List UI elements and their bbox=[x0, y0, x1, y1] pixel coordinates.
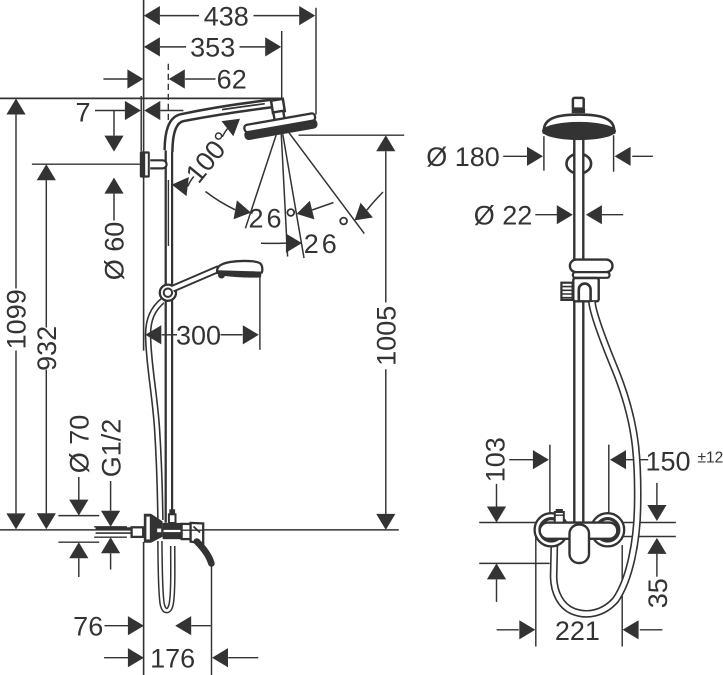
svg-text:7: 7 bbox=[75, 98, 90, 128]
valve centerline left figure bbox=[0, 529, 399, 531]
head face (dark ellipse) bbox=[542, 122, 616, 140]
hand shower holder ring bbox=[160, 285, 176, 301]
extension line 438 right bbox=[315, 8, 317, 115]
hose right figure bbox=[554, 302, 638, 614]
extension line 353 bbox=[281, 31, 283, 98]
svg-text:62: 62 bbox=[217, 65, 247, 95]
riser pipe bbox=[164, 140, 174, 523]
svg-text:35: 35 bbox=[643, 578, 673, 608]
dim line G1/2 bbox=[110, 481, 112, 570]
dim line 1005 bbox=[385, 151, 387, 514]
line B outlet level bbox=[622, 536, 676, 538]
100 deg arc stubs bbox=[222, 129, 227, 137]
dim line 7 bbox=[95, 110, 183, 112]
wall fitting square bbox=[132, 527, 144, 537]
26a bbox=[234, 200, 253, 222]
extension line 7-left bbox=[140, 96, 142, 151]
ball joint ring bbox=[567, 154, 592, 174]
dia22 bbox=[557, 205, 573, 224]
handle lever bbox=[197, 542, 212, 564]
valve handle bbox=[570, 525, 590, 564]
check valve knob bbox=[561, 283, 572, 300]
degree circle second 26 bbox=[340, 218, 347, 225]
line C lower boundary bbox=[479, 562, 550, 564]
hand shower handle bbox=[173, 269, 220, 289]
wall line bbox=[143, 0, 145, 675]
62 bbox=[127, 69, 143, 88]
dim line 103 bbox=[496, 484, 498, 602]
valve escutcheon cone bbox=[144, 514, 163, 543]
elbow and shower arm bbox=[165, 100, 272, 152]
overhead shower head (side view, tilted) bbox=[243, 113, 319, 141]
dim line 300 bbox=[162, 334, 243, 336]
svg-text:Ø 70: Ø 70 bbox=[65, 415, 95, 474]
150 extension lines bbox=[550, 445, 609, 521]
dim line 176 bbox=[104, 657, 258, 659]
pipe over ring bbox=[573, 149, 584, 181]
diverter knob bbox=[169, 514, 176, 523]
26a leaders bbox=[206, 192, 236, 210]
spray fan lines bbox=[245, 122, 364, 259]
221 bbox=[519, 620, 535, 639]
176 bbox=[128, 648, 144, 667]
dim line 221 bbox=[497, 629, 663, 631]
svg-text:932: 932 bbox=[32, 326, 62, 371]
extension line 300 right bbox=[259, 272, 261, 350]
tick 1005 top bbox=[299, 134, 405, 136]
pipe bbox=[573, 139, 584, 524]
connector square on top of head bbox=[573, 98, 584, 109]
svg-text:150: 150 bbox=[645, 447, 690, 477]
svg-text:76: 76 bbox=[73, 611, 103, 641]
svg-text:438: 438 bbox=[204, 1, 249, 31]
dim line 62 bbox=[103, 78, 215, 80]
dim line 1099 bbox=[15, 115, 17, 514]
dim line 932 bbox=[45, 180, 47, 513]
wall bracket bbox=[140, 151, 150, 177]
svg-text:103: 103 bbox=[480, 437, 510, 482]
valve escutcheon right outer bbox=[591, 513, 624, 546]
supply nipple into wall bbox=[96, 527, 132, 530]
dia60 bbox=[104, 136, 123, 152]
valve body bbox=[540, 523, 618, 539]
103 bbox=[487, 507, 506, 523]
1005 bbox=[376, 135, 395, 151]
26b leaders bbox=[261, 242, 286, 244]
head cap (white dome) bbox=[544, 115, 614, 133]
svg-text:176: 176 bbox=[150, 643, 195, 673]
7 bbox=[125, 101, 141, 120]
svg-text:100°: 100° bbox=[180, 126, 238, 188]
dim line 353 bbox=[160, 46, 265, 48]
valve knob bbox=[555, 512, 564, 523]
svg-text:1099: 1099 bbox=[2, 289, 32, 349]
76 bbox=[128, 616, 144, 635]
head connector square bbox=[271, 99, 285, 113]
valve escutcheon left outer bbox=[535, 513, 568, 546]
tick 932 top bbox=[32, 163, 140, 165]
dim line dia180 bbox=[503, 155, 653, 157]
svg-text:Ø 60: Ø 60 bbox=[100, 222, 130, 281]
150 bbox=[533, 450, 549, 469]
centerline over valve mid-section bbox=[182, 529, 203, 531]
svg-text:Ø 180: Ø 180 bbox=[426, 142, 500, 172]
dim line 150 bbox=[509, 459, 648, 461]
hose upper (holder to valve) bbox=[148, 300, 164, 521]
handle base bbox=[191, 523, 204, 543]
dia180 bbox=[527, 147, 543, 166]
1099 bbox=[6, 99, 25, 115]
dim line 35 bbox=[656, 483, 658, 577]
head connector neck bbox=[273, 111, 284, 120]
degree circle first 26 bbox=[287, 209, 294, 216]
svg-text:300: 300 bbox=[176, 321, 221, 351]
353 bbox=[144, 37, 160, 56]
hose loop under valve bbox=[160, 541, 173, 611]
dim line dia60 bbox=[113, 111, 115, 221]
line A valve inlet centerline bbox=[479, 522, 676, 524]
300 bbox=[145, 325, 161, 344]
438 bbox=[144, 6, 160, 25]
221 extension lines bbox=[536, 522, 622, 647]
ticks dia70 bbox=[58, 516, 99, 543]
svg-text:26: 26 bbox=[304, 229, 340, 259]
ticks G1/2 bbox=[94, 527, 127, 537]
slider holder bbox=[570, 260, 613, 273]
svg-text:353: 353 bbox=[190, 33, 235, 63]
valve body bbox=[163, 523, 182, 539]
dim line 76 bbox=[105, 625, 211, 627]
100deg bbox=[221, 111, 245, 136]
hose outlet block bbox=[573, 278, 598, 301]
G1/2 bbox=[101, 511, 120, 527]
dashed riser centerline bbox=[167, 64, 169, 124]
svg-text:G1/2: G1/2 bbox=[96, 419, 126, 478]
35 bbox=[647, 505, 666, 521]
svg-text:±12: ±12 bbox=[698, 450, 723, 467]
dim line 300 redrawn on top bbox=[162, 334, 243, 336]
dim line dia22 bbox=[535, 214, 623, 216]
reference line 1099 top / arm top bbox=[0, 97, 282, 99]
dim line 438 bbox=[160, 15, 299, 17]
dia70 bbox=[69, 500, 88, 516]
26b bbox=[286, 234, 302, 253]
valve mid section bbox=[182, 524, 191, 539]
svg-text:26: 26 bbox=[248, 204, 284, 234]
dim line dia70 bbox=[78, 477, 80, 577]
932 bbox=[37, 164, 56, 180]
extension line 176 right bbox=[211, 566, 213, 675]
svg-text:1005: 1005 bbox=[372, 306, 402, 366]
svg-text:221: 221 bbox=[555, 616, 600, 646]
svg-text:Ø 22: Ø 22 bbox=[474, 200, 533, 230]
dia180 extension lines bbox=[544, 135, 614, 172]
bracket stem to pipe bbox=[150, 160, 166, 168]
hand shower head bbox=[217, 261, 262, 279]
